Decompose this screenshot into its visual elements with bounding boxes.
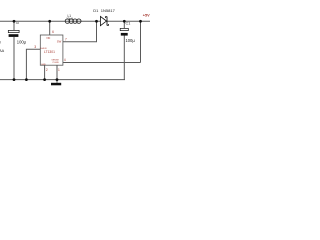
svg-text:M: M <box>0 41 1 45</box>
svg-text:+5V: +5V <box>143 13 150 17</box>
svg-text:10µH: 10µH <box>66 16 73 20</box>
svg-text:1N5817: 1N5817 <box>101 8 116 13</box>
svg-text:AA: AA <box>0 49 5 53</box>
svg-text:6: 6 <box>52 30 54 34</box>
svg-text:C2: C2 <box>16 21 20 25</box>
svg-text:GND: GND <box>41 64 46 66</box>
svg-text:3: 3 <box>34 45 36 49</box>
svg-text:D1: D1 <box>93 8 99 13</box>
svg-text:PGND: PGND <box>53 62 60 64</box>
svg-text:100µ: 100µ <box>17 40 27 45</box>
svg-text:LT1301: LT1301 <box>44 50 55 54</box>
svg-text:C1: C1 <box>126 21 131 25</box>
svg-text:2: 2 <box>46 68 48 72</box>
svg-text:1: 1 <box>58 68 60 72</box>
svg-text:SW: SW <box>57 39 62 43</box>
svg-text:VIN: VIN <box>46 37 50 40</box>
svg-text:4: 4 <box>64 58 66 62</box>
svg-text:100µ: 100µ <box>126 38 136 43</box>
svg-text:7: 7 <box>65 38 67 42</box>
